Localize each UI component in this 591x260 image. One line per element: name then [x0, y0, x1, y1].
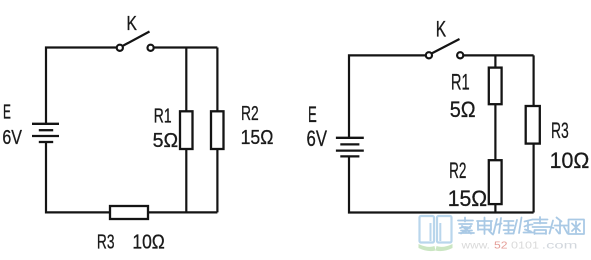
watermark book icon — [419, 216, 453, 251]
resistor R2 (left circuit) — [211, 111, 224, 149]
watermark url www.520101.com — [460, 241, 577, 252]
resistor R2 (right circuit) — [489, 160, 502, 204]
battery E (left circuit) — [32, 124, 59, 142]
svg-text:0101: 0101 — [511, 241, 540, 252]
svg-text:R3: R3 — [551, 118, 569, 143]
wire left-circuit top (battery to switch) — [46, 48, 117, 125]
svg-text:52: 52 — [494, 241, 508, 252]
svg-text:10Ω: 10Ω — [550, 148, 590, 173]
svg-text:R1: R1 — [154, 105, 172, 127]
svg-text:15Ω: 15Ω — [448, 186, 488, 211]
svg-text:www.: www. — [460, 241, 490, 252]
svg-text:R2: R2 — [449, 158, 466, 183]
svg-text:R3: R3 — [97, 232, 115, 254]
svg-text:E: E — [3, 101, 11, 123]
wire right-circuit middle branch vertical — [494, 55, 496, 212]
wire right-circuit top-right (switch to R3 branch) — [463, 54, 534, 56]
wire left-circuit top-right (switch to R2 branch) — [154, 46, 217, 48]
wire left-circuit bottom — [46, 142, 217, 212]
switch K2 (right circuit) — [426, 39, 464, 58]
battery E (right circuit) — [336, 138, 364, 157]
svg-text:K: K — [127, 13, 138, 35]
svg-text:5Ω: 5Ω — [153, 130, 179, 152]
switch K1 (left circuit) — [117, 32, 154, 51]
resistor R3 (left circuit, horizontal) — [110, 206, 148, 219]
resistor R3 (right circuit) — [526, 106, 540, 144]
wire right-circuit top (battery to switch) — [349, 55, 426, 137]
svg-text:.com: .com — [542, 241, 578, 252]
svg-text:5Ω: 5Ω — [450, 97, 476, 122]
svg-text:6V: 6V — [307, 126, 328, 151]
svg-text:K: K — [436, 16, 447, 41]
wire right-circuit right side (R3 branch) — [532, 55, 534, 212]
resistor R1 (right circuit) — [489, 68, 502, 105]
svg-text:6V: 6V — [2, 127, 22, 149]
svg-text:R1: R1 — [451, 69, 470, 94]
watermark text 家电维修资料网 (hand-drawn strokes) — [458, 217, 584, 235]
svg-text:R2: R2 — [241, 103, 259, 125]
wire right-circuit bottom — [349, 156, 534, 212]
svg-text:E: E — [308, 102, 317, 127]
svg-text:10Ω: 10Ω — [132, 232, 164, 254]
wire left-circuit right side (R2 branch) — [216, 48, 218, 213]
wire left-circuit R1 branch vertical — [185, 48, 187, 213]
svg-text:15Ω: 15Ω — [241, 127, 274, 149]
resistor R1 (left circuit) — [180, 111, 193, 149]
